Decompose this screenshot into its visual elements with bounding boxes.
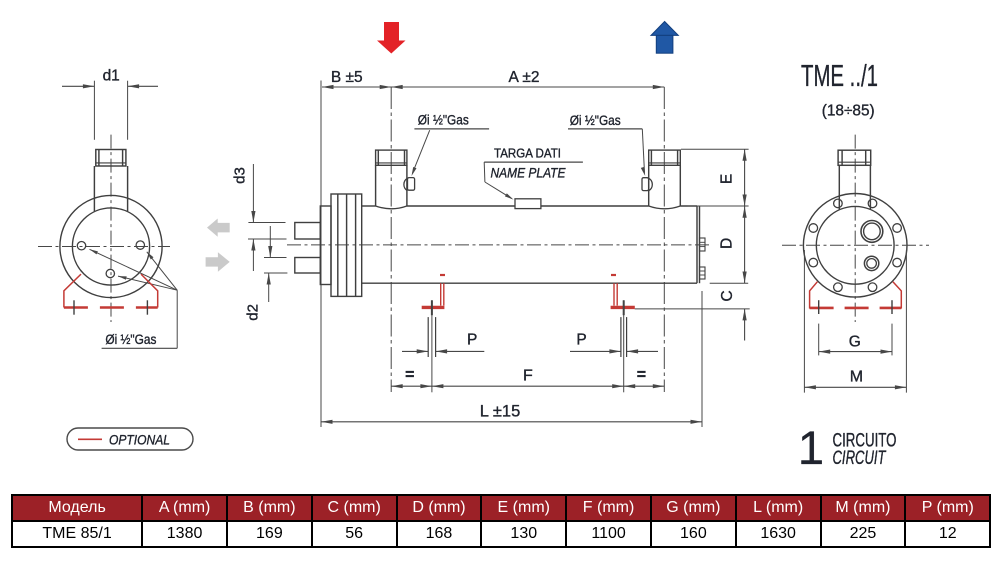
svg-text:Øi ½"Gas: Øi ½"Gas [570, 113, 621, 128]
right view pipe cap [838, 150, 871, 165]
left view horizontal centreline [38, 246, 170, 248]
svg-text:CIRCUIT: CIRCUIT [833, 448, 887, 469]
dimension G [818, 324, 820, 356]
svg-text:A ±2: A ±2 [509, 69, 540, 86]
optional legend pill [67, 428, 193, 450]
right view bolt holes [868, 199, 877, 208]
left port cap [376, 150, 407, 165]
right support bracket (red, optional) [611, 275, 635, 307]
left port centreline [390, 87, 392, 392]
shell centreline [287, 244, 712, 246]
right view vertical centreline [854, 135, 856, 322]
name plate [515, 199, 541, 209]
left view outer flange circle [60, 195, 162, 297]
right view pipe [838, 165, 840, 210]
right port cap [649, 150, 681, 165]
D/C extension lines [710, 282, 749, 284]
bracket slot ticks [73, 300, 75, 314]
left view optional bracket (red) [64, 274, 158, 307]
right view inner circle [816, 206, 894, 284]
bonnet [320, 206, 331, 285]
right port centreline [663, 87, 665, 392]
svg-text:E: E [719, 174, 736, 184]
right port side connector [649, 178, 653, 191]
dimension E [744, 149, 746, 206]
svg-text:TME ../1: TME ../1 [801, 58, 878, 93]
left port side connector [404, 178, 408, 191]
red inlet arrow [377, 22, 406, 54]
end cap tab upper [700, 238, 706, 251]
svg-text:d2: d2 [245, 304, 262, 321]
optional legend red line [78, 438, 102, 440]
shell body top [362, 205, 376, 207]
svg-text:C: C [719, 290, 736, 301]
right slot lines [620, 317, 622, 357]
end cap tab lower [700, 267, 706, 279]
blue outlet arrow [651, 22, 678, 54]
left view pipe [93, 166, 95, 211]
leader lines to bolt holes [90, 249, 178, 290]
E extension lines [681, 148, 749, 150]
large port circle [861, 221, 883, 243]
dimension C [744, 309, 746, 341]
svg-text:d1: d1 [103, 68, 120, 85]
svg-text:d3: d3 [231, 167, 248, 184]
dimension D [744, 206, 746, 283]
shell body bottom [362, 282, 697, 284]
right port body [648, 165, 650, 206]
dimension F and = [391, 385, 664, 387]
svg-text:D: D [719, 238, 736, 249]
flange disc [331, 194, 362, 296]
right extension line for L [701, 291, 703, 427]
left view bolt hole bottom [106, 269, 114, 277]
stub pipe upper [295, 223, 321, 240]
svg-text:P: P [467, 332, 477, 349]
svg-text:TARGA DATI: TARGA DATI [494, 145, 561, 160]
svg-text:P: P [576, 332, 586, 349]
grey arrow right [206, 252, 230, 272]
svg-text:Øi ½"Gas: Øi ½"Gas [105, 332, 156, 347]
right view outer circle [803, 194, 907, 298]
left port body [375, 165, 377, 206]
svg-text:(18÷85): (18÷85) [822, 103, 875, 120]
svg-text:NAME PLATE: NAME PLATE [491, 166, 567, 181]
right view optional bracket (red) [810, 282, 902, 309]
small port circle [864, 256, 878, 270]
stub pipe lower [295, 258, 321, 274]
left support bracket (red, optional) [422, 275, 445, 307]
left slot lines [427, 317, 429, 357]
left view vertical centreline [110, 135, 112, 322]
svg-text:F: F [523, 368, 533, 385]
svg-text:1: 1 [798, 421, 824, 474]
dimension M [803, 250, 805, 393]
left extension line [320, 81, 322, 428]
svg-text:=: = [637, 367, 646, 384]
svg-text:M: M [850, 369, 863, 386]
right view bracket ticks [818, 300, 820, 314]
left view bolt hole left [77, 242, 85, 250]
left view bolt hole right [136, 241, 144, 249]
shell end cap right [696, 206, 698, 283]
svg-text:G: G [849, 334, 861, 351]
left view pipe cap [96, 150, 126, 167]
left view inner circle [72, 208, 149, 285]
svg-text:=: = [405, 367, 414, 384]
svg-text:L ±15: L ±15 [480, 403, 521, 421]
svg-text:OPTIONAL: OPTIONAL [109, 431, 170, 447]
grey arrow left [207, 219, 230, 237]
svg-text:Øi ½"Gas: Øi ½"Gas [418, 113, 469, 128]
dimensions table [11, 494, 991, 548]
svg-text:B ±5: B ±5 [331, 69, 363, 86]
right view horizontal centreline [782, 244, 929, 246]
